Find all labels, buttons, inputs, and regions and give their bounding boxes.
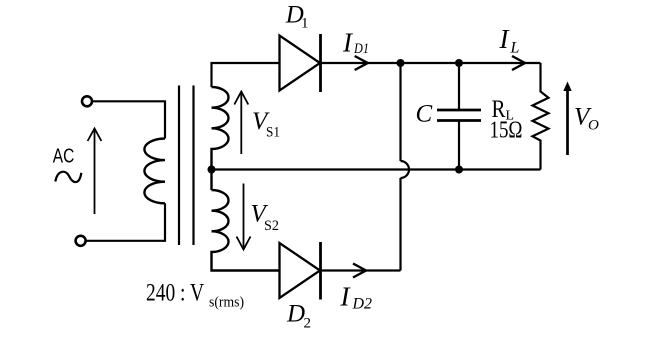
svg-text:S2: S2 xyxy=(264,218,279,234)
label 240 : Vs(rms) xyxy=(146,280,244,311)
transformer secondary winding S2 xyxy=(212,190,280,271)
label ID1 xyxy=(342,28,369,58)
transformer primary winding xyxy=(144,139,165,204)
label VO xyxy=(574,104,599,134)
arrow ID2 xyxy=(353,264,366,278)
label D2 xyxy=(286,301,311,332)
label D1 xyxy=(285,2,309,32)
diode D1 xyxy=(280,34,321,92)
svg-text:AC: AC xyxy=(53,144,75,167)
diode D2 xyxy=(280,242,321,300)
junction node: capacitor bottom xyxy=(455,166,463,174)
AC source terminal (bottom) xyxy=(76,236,86,246)
junction node: capacitor top xyxy=(455,59,463,67)
svg-text:D: D xyxy=(286,301,305,328)
label ID2 xyxy=(340,282,373,313)
label C xyxy=(416,101,433,128)
svg-text:2: 2 xyxy=(304,316,312,332)
svg-text:S1: S1 xyxy=(266,125,280,141)
svg-text:s(rms): s(rms) xyxy=(209,295,244,311)
wire: secondary top to diode D1 anode (top rail left) xyxy=(212,63,280,87)
svg-text:D1: D1 xyxy=(353,41,369,57)
svg-text:1: 1 xyxy=(301,16,309,32)
svg-text:15Ω: 15Ω xyxy=(490,118,523,144)
capacitor C xyxy=(437,63,481,170)
wire: top rail from D1 cathode to load resistor xyxy=(321,62,541,64)
wire: D2 riser to top rail with hop over bottom rail xyxy=(401,63,410,271)
arrow ID1 xyxy=(355,56,368,70)
AC source terminal (top) xyxy=(82,96,92,106)
wire: D2 cathode to riser xyxy=(321,269,401,271)
label RL xyxy=(492,96,515,124)
label 15 ohm xyxy=(490,118,523,144)
svg-text:240 : V: 240 : V xyxy=(146,280,204,307)
wire: bottom rail from center tap to resistor bottom xyxy=(212,168,541,170)
label AC xyxy=(53,144,75,167)
arrow VS1 xyxy=(234,92,248,155)
arrow: AC source polarity xyxy=(88,129,102,215)
label IL xyxy=(499,24,520,57)
svg-text:L: L xyxy=(510,40,520,57)
arrow IL xyxy=(512,56,525,70)
label VS1 xyxy=(252,108,280,141)
AC sine tilde symbol xyxy=(55,172,81,182)
resistor RL xyxy=(533,63,549,170)
svg-text:D2: D2 xyxy=(351,296,372,313)
svg-text:C: C xyxy=(416,101,433,128)
svg-text:O: O xyxy=(588,118,599,134)
junction node: D1/D2 cathodes on top rail xyxy=(397,59,405,67)
wire: primary winding bottom to bottom terminal xyxy=(86,203,165,241)
center tap node xyxy=(208,166,216,174)
transformer secondary winding S1 xyxy=(212,87,229,190)
transformer core xyxy=(179,86,194,246)
arrow VO xyxy=(563,82,571,156)
arrow VS2 xyxy=(237,184,251,250)
label VS2 xyxy=(251,201,280,235)
wire: top terminal to primary winding top xyxy=(92,101,165,138)
